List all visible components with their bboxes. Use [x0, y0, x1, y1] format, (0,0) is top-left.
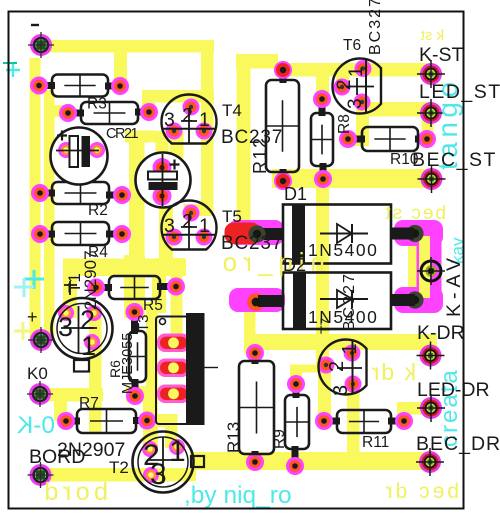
- text: mirrored bord: [40, 478, 108, 506]
- wire: yellow under D right pads: [408, 230, 422, 302]
- text: cyan plus marks mid-left: [24, 270, 44, 289]
- wire: K0 band: [34, 388, 103, 402]
- resistor R10: [348, 136, 365, 143]
- text: mirrored bec st: [383, 203, 446, 224]
- resistor R6: [131, 312, 138, 334]
- svg-text:,by niq_ro: ,by niq_ro: [184, 482, 292, 509]
- wire: C2 column D: [156, 131, 169, 199]
- svg-text:T7: T7: [317, 317, 333, 334]
- node K-AV pad: [421, 261, 441, 281]
- svg-text:BC237: BC237: [221, 233, 283, 254]
- svg-text:1: 1: [81, 331, 96, 361]
- wire: top-left net from P- pad: [35, 40, 214, 53]
- svg-text:T6: T6: [343, 37, 361, 54]
- svg-text:LED_ST: LED_ST: [419, 81, 500, 103]
- wire: column C (R2/R4 right pads to R6 top): [125, 131, 157, 143]
- resistor R7: [66, 418, 80, 425]
- svg-text:1: 1: [199, 109, 210, 131]
- wire: band over T1: [63, 259, 186, 277]
- transistor T2 2N2907: [191, 456, 204, 467]
- svg-text:k st: k st: [420, 27, 444, 44]
- text: mirrored k dr: [370, 359, 416, 385]
- node P- (supply minus pad): [30, 34, 52, 56]
- svg-text:R3: R3: [87, 96, 107, 113]
- resistor R8: [319, 99, 326, 116]
- svg-text:K-DR: K-DR: [417, 322, 465, 344]
- node K-ST pad: [420, 63, 442, 85]
- svg-text:R8: R8: [336, 114, 353, 134]
- transistor T2 2N2907 pads: [142, 441, 158, 457]
- resistor R2: [40, 190, 55, 197]
- svg-text:R5: R5: [143, 297, 163, 314]
- transistor T3 MJE3055: [157, 334, 190, 353]
- svg-text:1: 1: [169, 435, 186, 468]
- transistor T6 BC327: [355, 60, 372, 77]
- svg-text:K0: K0: [27, 364, 48, 383]
- svg-text:3: 3: [345, 98, 366, 109]
- wire: R8 bottom down through D1/D2 to T7 pin2 and R11 left: [316, 179, 329, 366]
- svg-text:BEC_ST: BEC_ST: [412, 149, 497, 171]
- diode D2 1N5400: [391, 294, 415, 306]
- svg-text:3: 3: [164, 109, 175, 131]
- svg-text:1: 1: [346, 66, 367, 77]
- node BEC_DR pad: [419, 451, 441, 473]
- wire: T7 pin1 stub: [347, 340, 359, 356]
- text: cyan plus marks top-left: [3, 62, 17, 64]
- svg-text:T3: T3: [135, 314, 152, 332]
- resistor R4: [40, 231, 55, 238]
- transistor T1 2N2907 pads: [58, 305, 74, 321]
- capacitor C2: [136, 153, 191, 208]
- wire: R8 bottom to BEC_ST band: [272, 169, 434, 188]
- svg-text:BC327: BC327: [367, 0, 384, 55]
- wire: R6 bottom / T2 pin2 column: [126, 386, 148, 402]
- wire: BORD band: [34, 468, 196, 482]
- svg-text:2: 2: [182, 211, 193, 233]
- wire: R11 right to LED-DR: [397, 404, 410, 423]
- transistor T1 2N2907: [74, 360, 89, 372]
- svg-text:T5: T5: [222, 207, 242, 226]
- wire: top right band R12 top to K-ST: [277, 63, 433, 77]
- text: mirrored k st: [420, 27, 444, 44]
- svg-text:3: 3: [164, 215, 175, 237]
- svg-text:+: +: [27, 307, 38, 327]
- wire: D1/D2 right magenta U: [394, 220, 443, 246]
- svg-text:R2: R2: [88, 202, 108, 219]
- svg-text:T2: T2: [109, 458, 129, 477]
- wire: bottom band to BEC_DR: [190, 452, 434, 470]
- svg-text:K-ST: K-ST: [419, 44, 464, 66]
- svg-text:K-AV: K-AV: [443, 253, 465, 317]
- text: cyan K-0: [16, 412, 55, 439]
- svg-text:2: 2: [334, 79, 355, 90]
- svg-text:bord: bord: [40, 478, 108, 506]
- svg-text:CR21: CR21: [106, 126, 139, 142]
- resistor R1: [39, 82, 55, 89]
- transistor T4 BC237: [166, 123, 183, 140]
- node LED_ST pad: [420, 102, 442, 124]
- svg-text:3: 3: [150, 458, 167, 491]
- svg-text:R9: R9: [271, 429, 288, 449]
- wire: T7 pin3 down through R11: [347, 384, 360, 462]
- wire: T4 pin3 stub: [170, 131, 184, 158]
- transistor T5 BC237: [166, 229, 183, 246]
- svg-text:bec st: bec st: [383, 203, 446, 224]
- node BEC_ST pad: [421, 168, 443, 190]
- svg-text:0-K: 0-K: [16, 412, 55, 439]
- svg-text:T4: T4: [222, 101, 242, 120]
- svg-text:LED-DR: LED-DR: [417, 379, 490, 401]
- svg-text:BORD: BORD: [29, 446, 85, 468]
- svg-text:bec dr: bec dr: [383, 480, 459, 503]
- wire: column to D1 left pad: [236, 54, 278, 69]
- wire: T1 pins 1-2 column: [89, 313, 102, 433]
- wire: R7 right to T2 pin1: [147, 414, 177, 427]
- diode D1 1N5400: [391, 228, 414, 240]
- wire: K-DR band: [249, 334, 437, 350]
- resistor R12: [280, 70, 287, 83]
- svg-text:2: 2: [326, 361, 348, 372]
- wire: D2 left top-layer pad/trace: [229, 288, 285, 312]
- node BORD pad: [30, 464, 52, 486]
- text: mirrored niq_ro: [217, 247, 325, 277]
- svg-text:D1: D1: [284, 184, 307, 204]
- wire: D2 left pad down to R13 top: [244, 305, 256, 353]
- node K0 pad: [29, 383, 51, 405]
- transistor T7 BC327: [344, 345, 361, 362]
- svg-text:BEC_DR: BEC_DR: [416, 433, 500, 455]
- svg-text:1: 1: [339, 343, 361, 354]
- svg-text:BC327: BC327: [341, 272, 358, 331]
- node + pad: [30, 329, 52, 351]
- svg-text:MJE3055: MJE3055: [120, 333, 136, 394]
- resistor R9: [293, 384, 300, 398]
- wire: left column B: [44, 90, 55, 340]
- resistor R5: [96, 284, 112, 291]
- svg-text:BC237: BC237: [221, 127, 283, 148]
- wire: left column A: [30, 58, 41, 340]
- svg-text:1: 1: [199, 215, 210, 237]
- wire: D1 left top-layer pad/trace: [228, 220, 284, 245]
- svg-text:2N2907: 2N2907: [81, 250, 100, 310]
- svg-text:3: 3: [58, 312, 73, 342]
- resistor R13: [252, 353, 259, 364]
- svg-text:3: 3: [330, 385, 352, 396]
- svg-text:R13: R13: [224, 422, 243, 453]
- text: mirrored bec dr: [383, 480, 459, 503]
- svg-text:D2: D2: [283, 255, 306, 275]
- svg-text:2: 2: [182, 105, 193, 127]
- wire: T6 pin3 / LED_ST band: [358, 102, 434, 117]
- node LED-DR pad: [420, 397, 442, 419]
- svg-text:R11: R11: [362, 434, 389, 451]
- capacitor C1: [51, 128, 108, 185]
- node K-DR pad: [420, 345, 442, 367]
- resistor R11: [324, 418, 340, 425]
- resistor R3: [68, 110, 84, 117]
- svg-text:k dr: k dr: [370, 359, 416, 385]
- svg-text:R7: R7: [79, 395, 99, 412]
